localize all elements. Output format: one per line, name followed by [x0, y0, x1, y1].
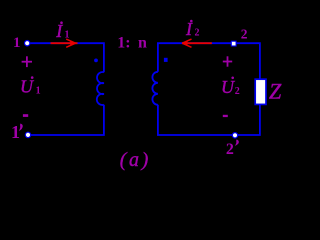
minus sign (primary) — [23, 114, 28, 117]
plus sign (primary) — [22, 56, 32, 67]
svg-text:Z: Z — [269, 78, 282, 103]
current arrow I2 — [182, 39, 212, 47]
svg-text:2: 2 — [241, 26, 248, 41]
terminal 1' — [25, 132, 30, 137]
svg-text:2: 2 — [235, 86, 240, 97]
label 1:n (turns ratio) — [117, 34, 147, 51]
wire: primary bottom (winding down, left to terminal 1') — [31, 105, 104, 135]
label Z — [269, 78, 282, 103]
label terminal 1' — [11, 122, 23, 142]
label U2 (voltage) — [221, 77, 240, 97]
minus sign (secondary) — [223, 115, 228, 117]
current arrow I1 — [51, 39, 78, 47]
label terminal 2 — [241, 26, 248, 41]
terminal 2' — [232, 133, 237, 138]
label I2 (current) — [185, 19, 200, 39]
wire: secondary bottom (winding down, right to Z branch) — [158, 104, 260, 135]
caption (a) — [120, 149, 151, 171]
label terminal 2' — [226, 139, 239, 157]
svg-text:U: U — [20, 77, 34, 97]
svg-text:n: n — [138, 34, 147, 51]
svg-text:2: 2 — [195, 28, 200, 39]
impedance Z (load box) — [255, 79, 266, 104]
plus sign (secondary) — [223, 56, 232, 66]
svg-text:1: 1 — [65, 30, 70, 41]
polarity dot (primary) — [94, 59, 98, 63]
svg-text:1: 1 — [13, 35, 21, 51]
svg-text:I: I — [55, 21, 63, 41]
terminal 2 (square) — [231, 41, 236, 46]
svg-text:1: 1 — [11, 122, 20, 142]
svg-text:U: U — [221, 77, 235, 97]
wire: secondary top (winding up, right to corner, down to Z) — [158, 43, 260, 79]
svg-text:(a): (a) — [120, 149, 151, 171]
svg-text:2: 2 — [226, 141, 234, 158]
winding W2 (secondary coil) — [152, 72, 158, 105]
svg-text:1:: 1: — [117, 34, 130, 51]
wire: primary top (terminal 1 to corner, down to winding) — [31, 43, 104, 72]
polarity dot (secondary, square) — [164, 58, 168, 62]
label terminal 1 — [13, 35, 21, 51]
label I1 (current) — [55, 21, 69, 41]
label U1 (voltage) — [20, 76, 41, 96]
terminal 1 — [25, 41, 30, 46]
winding W1 (primary coil) — [97, 72, 104, 105]
svg-text:1: 1 — [36, 85, 41, 96]
